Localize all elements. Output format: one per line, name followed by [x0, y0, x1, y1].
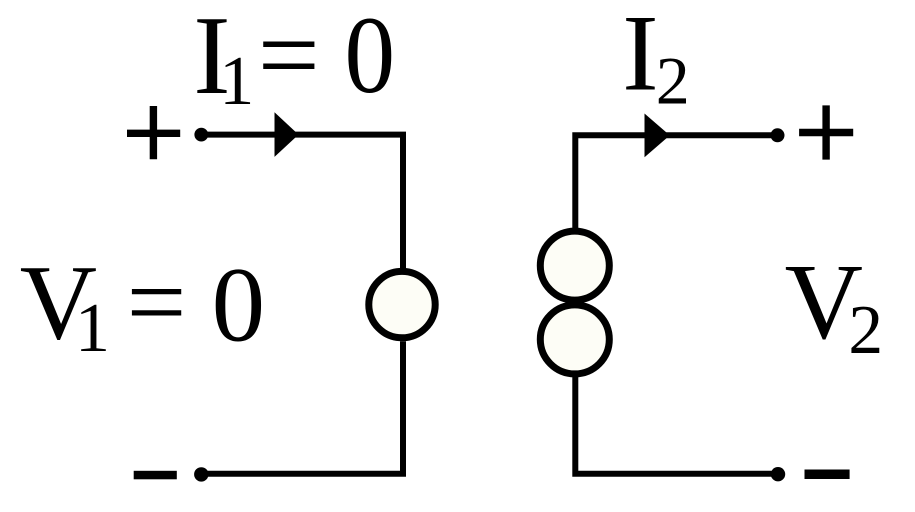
svg-text:=: = — [127, 243, 187, 360]
svg-text:2: 2 — [656, 42, 690, 118]
norator U2 lower circle — [540, 305, 609, 374]
svg-text:1: 1 — [75, 290, 110, 367]
minus sign port 2 — [805, 470, 850, 480]
arrowhead I2 — [645, 114, 670, 158]
plus sign port 1 — [127, 106, 180, 159]
plus sign port 2 — [799, 105, 853, 159]
terminal node dot, port 2 top — [771, 128, 785, 142]
terminal node dot, port 2 bottom — [771, 467, 785, 481]
svg-text:1: 1 — [219, 43, 254, 120]
arrowhead I1 — [275, 112, 299, 157]
terminal node dot, port 1 bottom — [194, 467, 208, 481]
nullator U1 (single circle, V1=0 I1=0) — [369, 271, 435, 337]
label V2 (port 2 voltage) — [785, 242, 884, 369]
wire: nullator bottom to port1 bottom terminal — [202, 341, 404, 474]
label V1 = 0 (port 1 voltage) — [20, 243, 265, 367]
wire: port1 top terminal to nullator top — [202, 135, 404, 269]
svg-text:0: 0 — [212, 246, 266, 364]
minus sign port 1 — [134, 471, 177, 480]
terminal node dot, port 1 top — [194, 128, 208, 142]
svg-text:I: I — [622, 0, 658, 113]
wire: norator top to port2 top terminal — [575, 135, 777, 228]
svg-text:2: 2 — [848, 292, 883, 369]
label I2 (port 2 current) — [622, 0, 690, 118]
label I1 = 0 (port 1 current) — [193, 0, 395, 120]
svg-text:0: 0 — [345, 0, 396, 116]
wire: norator bottom to port2 bottom terminal — [575, 377, 778, 474]
norator U2 upper circle — [540, 231, 609, 300]
svg-text:=: = — [258, 0, 320, 116]
